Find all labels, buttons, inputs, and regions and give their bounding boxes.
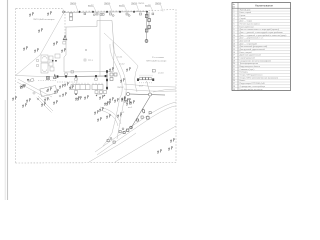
- svg-text:Дом дачный, двухэтажный: Дом дачный, двухэтажный: [240, 48, 265, 51]
- tree pair: [20, 84, 24, 88]
- small rects at knobs: [65, 71, 97, 81]
- tree pair: [127, 67, 131, 71]
- svg-text:оп.18: оп.18: [145, 5, 151, 7]
- small shed near road: [30, 78, 34, 82]
- sheet edge faint second line: [4, 100, 6, 200]
- pole symbol near road x54: [54, 75, 57, 79]
- curve left of substation: [135, 66, 138, 92]
- svg-text:Водонапорная башня: Водонапорная башня: [240, 66, 261, 68]
- tree pair: [27, 98, 31, 102]
- dark dots below barracks: [75, 93, 77, 95]
- substation drop to circles: [147, 81, 151, 93]
- svg-text:оп.12: оп.12: [88, 5, 94, 7]
- svg-text:Колодец: Колодец: [240, 72, 249, 74]
- svg-text:Дом нежилой (разрушенный): Дом нежилой (разрушенный): [240, 45, 268, 48]
- tree pair: [85, 95, 89, 99]
- svg-text:Дом — барак: Дом — барак: [240, 21, 253, 23]
- tree pair: [115, 98, 119, 102]
- pole on jog x=65: [63, 36, 67, 40]
- dark circle left road: [27, 79, 29, 81]
- corridor equipment symbols: [70, 13, 154, 21]
- svg-text:Дом — дачный, с мансардой и пр: Дом — дачный, с мансардой и пристройками: [240, 31, 283, 34]
- tree pair: [127, 101, 131, 105]
- tree pair: [23, 103, 27, 107]
- small road circles: [28, 80, 61, 100]
- corridor pole dark marks: [79, 11, 148, 13]
- dashed segment near tilted building: [38, 80, 56, 82]
- svg-text:Дом жилой: Дом жилой: [240, 40, 251, 43]
- tree pair: [107, 101, 111, 105]
- svg-text:Сарай дощатый: Сарай дощатый: [240, 57, 255, 60]
- svg-text:Скважина (арт.): Скважина (арт.): [240, 69, 255, 71]
- svg-text:Дом — деревянный, 1 эт.: Дом — деревянный, 1 эт.: [240, 37, 264, 40]
- svg-text:ЛЭП-1: ЛЭП-1: [138, 3, 145, 5]
- tree pair: [122, 97, 126, 101]
- svg-text:Летняя кухня (навес): Летняя кухня (навес): [240, 23, 260, 25]
- tree pair: [60, 84, 64, 88]
- tree pair: [63, 92, 67, 96]
- tree pair: [39, 28, 43, 32]
- small rect stack right of substation: [152, 70, 155, 73]
- drop line right x=147: [147, 12, 150, 42]
- svg-text:оп.10: оп.10: [158, 73, 164, 75]
- svg-text:Баня, сарай: Баня, сарай: [240, 11, 251, 14]
- ticks above barracks: [73, 83, 102, 85]
- dark marks in cluster: [52, 60, 54, 62]
- svg-text:Трансформаторная: Трансформаторная: [240, 62, 259, 65]
- vertical branch x=107: [106, 70, 108, 90]
- tree pair: [110, 67, 114, 71]
- roads: [16, 11, 177, 163]
- tree pair: [95, 110, 99, 114]
- svg-text:Р-н стоянки: Р-н стоянки: [152, 57, 165, 59]
- tree pair: [169, 146, 173, 150]
- tree pair: [62, 48, 66, 52]
- big parcel outline: [63, 21, 114, 73]
- svg-text:Навес: Навес: [240, 80, 246, 82]
- tree pair: [54, 41, 58, 45]
- tree pair: [100, 95, 104, 99]
- building cluster: [37, 54, 61, 73]
- equipment boxes right of branch: [110, 73, 117, 81]
- tree pair: [121, 78, 125, 82]
- tree pair: [100, 107, 104, 111]
- svg-text:Баня рубленая: Баня рубленая: [240, 26, 254, 28]
- top power corridor ЛЭП-1: [65, 11, 148, 14]
- tree pair: [76, 96, 80, 100]
- svg-text:ЛЭП 0,4кВ на опорах: ЛЭП 0,4кВ на опорах: [33, 19, 55, 21]
- tree pair: [35, 48, 39, 52]
- svg-text:оп.11: оп.11: [117, 57, 123, 59]
- tree pair: [118, 113, 122, 117]
- tree pair: [122, 96, 126, 100]
- svg-text:Баня, погреб: Баня, погреб: [240, 52, 253, 54]
- text labels: [33, 3, 167, 114]
- svg-text:оп.12: оп.12: [119, 64, 125, 66]
- tree pair: [55, 89, 59, 93]
- svg-text:ЛЭП-1: ЛЭП-1: [70, 3, 77, 5]
- tree pair: [107, 114, 111, 118]
- svg-text:Дом — сгоревший: Дом — сгоревший: [240, 42, 257, 45]
- road symbol boxes bottom-right: [107, 112, 151, 144]
- svg-text:Ограждение, сетка-рабица: Ограждение, сетка-рабица: [240, 86, 266, 88]
- svg-text:Л.Э.П.: Л.Э.П.: [96, 94, 103, 96]
- tree pair: [98, 117, 102, 121]
- barracks buildings: [71, 85, 107, 94]
- tree pair: [13, 96, 17, 100]
- work boundary dashed: [16, 8, 177, 163]
- svg-text:ЛЭП-1: ЛЭП-1: [104, 3, 111, 5]
- tree pair: [30, 12, 34, 16]
- boxed meter on road: [46, 76, 49, 79]
- tree pair: [110, 97, 114, 101]
- substation assembly: [138, 77, 154, 80]
- svg-text:ТП-1: ТП-1: [88, 60, 94, 62]
- tree pair: [42, 102, 46, 106]
- tree pair: [45, 97, 49, 101]
- svg-text:Граница работ по плану: Граница работ по плану: [240, 89, 264, 91]
- diagonal utility: [131, 97, 150, 129]
- tree pair: [22, 84, 26, 88]
- svg-text:ЛЭП 0,4кВ на опоре: ЛЭП 0,4кВ на опоре: [146, 61, 167, 63]
- svg-text:оп.15: оп.15: [119, 5, 125, 7]
- vertical branch x=77: [76, 77, 78, 85]
- corridor pole at jog: [63, 11, 65, 13]
- tree pair: [24, 46, 28, 50]
- mid power line: [57, 75, 108, 78]
- mid line pole knobs: [57, 75, 107, 78]
- svg-text:Сарай: Сарай: [240, 17, 246, 20]
- tilted building left: [40, 85, 57, 96]
- legend table: [232, 3, 291, 91]
- svg-text:Подстанция КТП 10/0,4 кВ: Подстанция КТП 10/0,4 кВ: [240, 83, 266, 85]
- tree pair: [78, 96, 82, 100]
- tree pair: [70, 85, 74, 89]
- tree pair: [171, 138, 175, 142]
- svg-text:Дровяник деревянный: Дровяник деревянный: [240, 54, 261, 57]
- tree pair: [158, 149, 162, 153]
- svg-text:Гараж: Гараж: [240, 15, 246, 17]
- svg-text:Опора ЛЭП, железобетонная (анк: Опора ЛЭП, железобетонная (анкерная): [240, 77, 279, 79]
- sheet edge line left: [7, 0, 9, 200]
- tree pair: [54, 100, 58, 104]
- svg-text:Дом со сломанным и с верандой: Дом со сломанным и с верандой (крыша): [240, 28, 280, 31]
- svg-text:Дом — садовый, с пристройкой и: Дом — садовый, с пристройкой и навесом (…: [240, 34, 287, 37]
- tree pair: [48, 11, 52, 15]
- tree pair: [127, 98, 131, 102]
- tree pair: [125, 98, 129, 102]
- circle pair utility: [126, 92, 165, 96]
- circle in tilted building: [46, 90, 48, 92]
- svg-text:Жилой дом: Жилой дом: [240, 8, 251, 11]
- tree pair: [65, 82, 69, 86]
- corridor labels with leaders: [70, 3, 162, 7]
- svg-text:ЛЭП-1: ЛЭП-1: [155, 3, 162, 5]
- tree pair: [48, 87, 52, 91]
- svg-text:Сооружение из металлопрофиля: Сооружение из металлопрофиля: [240, 59, 272, 62]
- svg-text:Опора ЛЭП деревянная: Опора ЛЭП деревянная: [240, 75, 263, 77]
- dashed stub below mid line: [57, 81, 77, 83]
- tree pair: [131, 100, 135, 104]
- svg-text:ЛЭП-2: ЛЭП-2: [117, 87, 124, 89]
- svg-text:Наименование: Наименование: [255, 3, 274, 7]
- tree pair: [105, 101, 109, 105]
